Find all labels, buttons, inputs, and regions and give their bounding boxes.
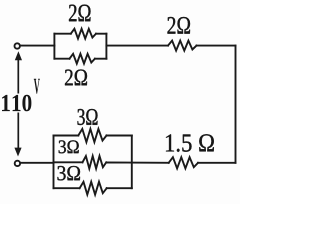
wire bottom box bottom edge lead-in <box>54 187 80 189</box>
resistor R2 2ohm bottom branch <box>70 54 95 64</box>
label 3ohm inner1 <box>59 140 79 153</box>
wire top box top edge lead-in <box>54 33 70 35</box>
label V <box>34 79 40 94</box>
wire T2 to bottom parallel box <box>21 162 54 164</box>
wire bottom box top edge lead-in <box>54 135 79 137</box>
terminal T1 top-left <box>15 43 20 48</box>
wire top box right edge <box>105 34 107 59</box>
wire bottom box left edge <box>53 136 55 189</box>
wire middle branch lead-in <box>54 161 83 163</box>
label 110 <box>2 95 31 112</box>
source arrow shaft <box>17 56 19 152</box>
wire top box top edge lead-out <box>96 33 106 35</box>
white mask behind 110 label <box>0 94 34 113</box>
resistor R1 2ohm top branch <box>71 29 96 39</box>
label 3ohm big <box>78 109 98 125</box>
wire R7 to right corner <box>198 162 236 164</box>
wire bottom box top edge lead-out <box>107 135 132 137</box>
resistor R3 2ohm series <box>168 41 197 51</box>
wire bottom box right edge <box>131 136 133 189</box>
label 1.5ohm <box>166 134 214 152</box>
wire R3 to right corner <box>197 45 236 47</box>
resistor R6 3ohm third branch <box>80 182 107 195</box>
wire T1 to top parallel box <box>20 45 54 47</box>
label 2ohm right <box>168 17 191 34</box>
wire right vertical <box>235 46 237 163</box>
terminal T2 bottom-left <box>15 161 20 166</box>
source arrow head up <box>15 51 22 60</box>
resistor R4 3ohm first branch <box>78 129 106 142</box>
label 3ohm inner2 <box>58 166 81 180</box>
source arrow head down <box>14 148 21 157</box>
wire top box to R3 <box>106 45 168 47</box>
wire top box left edge <box>53 34 55 59</box>
wire top box bottom edge lead-out <box>95 58 107 60</box>
wire middle branch lead-out to R7 <box>106 162 168 164</box>
resistor R7 1.5ohm series <box>169 157 198 168</box>
wire bottom box bottom edge lead-out <box>107 187 132 189</box>
wire top box bottom edge lead-in <box>54 58 69 60</box>
label 2ohm bottom <box>65 70 87 86</box>
resistor R5 3ohm middle branch <box>83 156 107 169</box>
label 2ohm top <box>69 5 91 22</box>
